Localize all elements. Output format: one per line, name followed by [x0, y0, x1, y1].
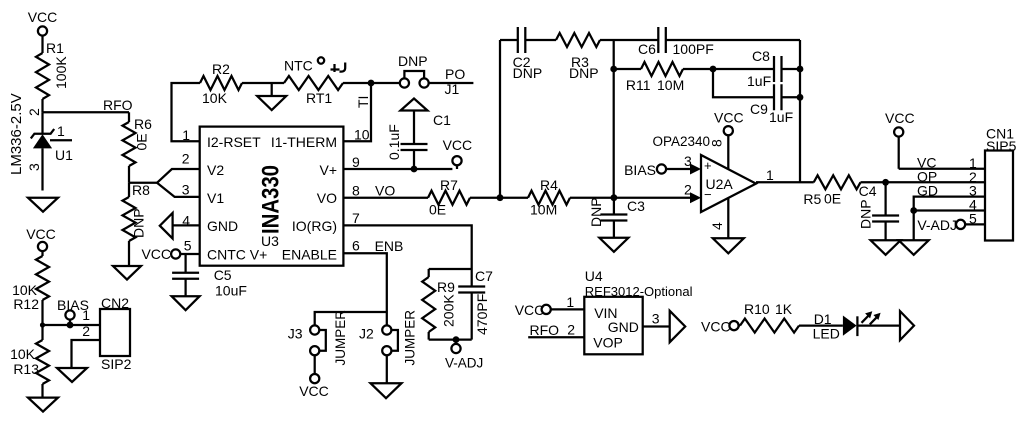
pin 1 wire U3 (I2-RSET): [172, 83, 201, 141]
svg-text:SIP5: SIP5: [986, 138, 1017, 154]
svg-text:R9: R9: [437, 279, 455, 295]
svg-text:2: 2: [567, 322, 575, 338]
junction dot (R12/R13/CN2): [40, 322, 45, 327]
capacitor C5 10uF: [184, 254, 186, 273]
resistor R10 1K: [740, 319, 799, 333]
svg-text:R6: R6: [134, 116, 152, 132]
svg-text:100K: 100K: [53, 56, 69, 89]
wire J1 to PO stub: [429, 82, 474, 84]
wire C3 node to U2A pin2: [614, 197, 691, 199]
ground (C5): [172, 296, 200, 310]
svg-text:CN2: CN2: [101, 295, 129, 311]
resistor R11 10M: [614, 68, 641, 70]
pin 3 wire U4: [643, 325, 670, 327]
thermistor RT1 NTC: [284, 76, 343, 90]
svg-text:2: 2: [26, 108, 42, 116]
svg-text:470PF: 470PF: [474, 294, 490, 335]
pin 1 wire U4: [551, 308, 585, 310]
svg-text:V+: V+: [319, 162, 337, 178]
svg-text:9: 9: [352, 154, 360, 170]
svg-text:IO(RG): IO(RG): [292, 218, 337, 234]
capacitor C6 100PF: [658, 27, 666, 53]
pin 3 arrowhead: [690, 164, 701, 175]
svg-text:VCC: VCC: [141, 246, 171, 262]
vertical wire C2R3 node: [613, 40, 615, 198]
svg-text:LM336-2.5V: LM336-2.5V: [8, 93, 25, 175]
connector CN2 SIP2: [100, 309, 130, 356]
IC U4 REF3012 body: [584, 297, 642, 355]
junction dot (C4 node): [882, 179, 889, 186]
output arrow (U4): [670, 311, 686, 342]
ground (U1): [28, 198, 58, 212]
svg-text:PO: PO: [445, 66, 465, 82]
capacitor C3 (DNP): [613, 198, 615, 215]
pin 4 wire CN1: [914, 209, 985, 211]
svg-text:R2: R2: [212, 61, 230, 77]
jumper J3: [310, 325, 319, 334]
jumper J1 (DNP): [400, 78, 409, 87]
svg-text:C9: C9: [750, 101, 768, 117]
pin 3 wire U2A: [666, 168, 691, 170]
svg-text:I2-RSET: I2-RSET: [207, 134, 261, 150]
svg-text:10K: 10K: [10, 346, 36, 362]
ground arrow (pin 4): [160, 213, 173, 239]
svg-text:VCC: VCC: [701, 319, 731, 335]
svg-text:DNP: DNP: [398, 53, 428, 69]
wire J3 to VCC: [314, 355, 316, 374]
svg-text:8: 8: [709, 139, 725, 147]
svg-text:10K: 10K: [202, 90, 228, 106]
svg-text:7: 7: [352, 210, 360, 226]
svg-text:C7: C7: [475, 268, 493, 284]
svg-text:V1: V1: [207, 190, 224, 206]
svg-text:V-ADJ: V-ADJ: [917, 217, 957, 233]
wire R7 to bus node: [470, 197, 500, 199]
svg-text:1K: 1K: [775, 301, 793, 317]
zener diode U1 LM336-2.5V: [31, 129, 54, 138]
wire TI node to J1: [371, 82, 400, 84]
connector CN1 SIP5: [985, 151, 1013, 241]
resistor R13: [36, 340, 49, 384]
wire VCC to R10: [739, 324, 740, 326]
svg-text:10M: 10M: [657, 77, 684, 93]
wire R11 to C8 node: [683, 68, 713, 70]
svg-text:R7: R7: [440, 177, 458, 193]
svg-text:VCC: VCC: [714, 110, 744, 126]
svg-text:GND: GND: [608, 319, 639, 335]
ground (R8): [113, 266, 141, 280]
resistor R6: [128, 112, 130, 122]
junction dot (GD/pin4): [910, 207, 917, 214]
junction dot (C8/C9 left): [710, 66, 717, 73]
capacitor C4 (DNP): [884, 182, 886, 215]
resistor R9 200K: [428, 269, 430, 277]
svg-text:C5: C5: [214, 267, 232, 283]
svg-text:8: 8: [352, 183, 360, 199]
wire R6 to fork: [128, 166, 130, 183]
wire D1 to arrow: [857, 324, 900, 326]
capacitor C8 1uF: [713, 68, 774, 70]
capacitor C9 1uF: [774, 84, 782, 110]
pin 4 wire U3 (GND): [173, 224, 200, 226]
svg-text:ENB: ENB: [375, 238, 404, 254]
resistor R7 0E: [428, 191, 470, 205]
svg-text:0E: 0E: [134, 133, 150, 150]
top feedback wire / C2 lead: [500, 39, 518, 41]
svg-text:ENABLE: ENABLE: [282, 247, 337, 263]
LED arrows: [862, 316, 869, 323]
svg-text:1: 1: [182, 127, 190, 143]
svg-text:V-ADJ: V-ADJ: [445, 356, 483, 371]
wire R1 to node RFO: [41, 99, 43, 112]
svg-text:1uF: 1uF: [769, 109, 793, 125]
svg-text:RT1: RT1: [306, 90, 332, 106]
wire R13 to ground: [41, 384, 43, 398]
svg-text:BIAS: BIAS: [624, 162, 656, 178]
capacitor C1 0.1uF: [413, 151, 415, 170]
svg-text:10M: 10M: [530, 202, 557, 218]
svg-text:1: 1: [766, 167, 774, 183]
pin 2 wire CN1 (OP): [886, 181, 985, 183]
svg-text:1: 1: [566, 294, 574, 310]
ground stub (R2/RT1 node): [271, 83, 273, 96]
svg-text:REF3012-Optional: REF3012-Optional: [585, 284, 693, 299]
resistor R4 10M: [500, 197, 528, 199]
wire R8 to ground: [128, 241, 130, 266]
svg-text:0E: 0E: [824, 191, 841, 207]
net V-ADJ stub: [455, 340, 457, 344]
pin 5 wire U3 (CNTC V+): [180, 253, 199, 255]
wire node to U1 cathode: [41, 112, 43, 133]
svg-text:0.1uF: 0.1uF: [386, 124, 402, 160]
svg-text:VO: VO: [317, 190, 337, 206]
svg-text:J2: J2: [359, 325, 374, 341]
svg-text:I1-THERM: I1-THERM: [271, 134, 337, 150]
svg-text:C3: C3: [627, 198, 645, 214]
svg-text:3: 3: [652, 311, 660, 327]
svg-text:VOP: VOP: [593, 335, 623, 351]
svg-text:VCC: VCC: [443, 137, 473, 153]
net RFO wire U4 pin2: [528, 336, 584, 338]
wire J2 to ground: [386, 355, 388, 383]
pin 7 wire U3 (IO(RG)): [343, 225, 471, 269]
svg-text:C1: C1: [433, 112, 451, 128]
svg-text:R8: R8: [132, 182, 150, 198]
svg-text:2: 2: [82, 323, 90, 339]
svg-text:10uF: 10uF: [215, 283, 247, 299]
resistor R5 0E: [814, 175, 861, 189]
svg-text:1: 1: [82, 307, 90, 323]
svg-text:R10: R10: [744, 301, 770, 317]
resistor R8 (DNP): [128, 183, 130, 197]
svg-text:JUMPER: JUMPER: [403, 310, 418, 366]
svg-text:VCC: VCC: [26, 226, 56, 242]
svg-text:RFO: RFO: [530, 322, 560, 338]
IC U3 INA330 body: [200, 127, 344, 266]
guard symbol above C1: [401, 99, 428, 111]
wire R4 to C3 node: [570, 197, 614, 199]
net TI vertical to pin 10: [343, 83, 371, 141]
power VCC (J3): [310, 374, 319, 383]
jumper J2: [382, 325, 391, 334]
pin 2 arrowhead: [690, 192, 701, 203]
svg-text:DNP: DNP: [131, 208, 147, 238]
LED D1: [843, 316, 857, 336]
svg-text:DNP: DNP: [858, 199, 874, 229]
wire R10 to D1: [799, 324, 843, 326]
svg-text:U1: U1: [55, 147, 73, 163]
svg-text:VCC: VCC: [515, 302, 545, 318]
svg-text:R4: R4: [540, 177, 558, 193]
svg-text:4: 4: [709, 222, 725, 230]
svg-text:INA330: INA330: [258, 165, 285, 234]
svg-text:DNP: DNP: [588, 197, 604, 227]
network R9/C7 top wire: [429, 268, 472, 270]
ground (C4): [871, 240, 901, 255]
svg-text:U2A: U2A: [706, 176, 734, 192]
svg-text:1: 1: [57, 123, 65, 139]
svg-text:DNP: DNP: [513, 65, 543, 81]
svg-text:1uF: 1uF: [747, 73, 771, 89]
ground (CN1 GD): [899, 240, 929, 255]
pin 8 wire U3 (VO): [343, 197, 428, 199]
pin 6 wire U3 (ENABLE): [343, 253, 386, 325]
resistor R12: [36, 256, 49, 300]
op-amp U2A body: [701, 155, 756, 212]
svg-text:DNP: DNP: [569, 65, 599, 81]
svg-text:C6: C6: [638, 41, 656, 57]
pin 3 wire CN1 (GD): [914, 197, 985, 241]
svg-text:+: +: [704, 158, 712, 173]
resistor R3 (DNP): [556, 33, 600, 47]
wire R5 to C4 node: [861, 181, 886, 183]
wire R2 to RT1: [242, 82, 284, 84]
svg-text:10: 10: [354, 127, 370, 143]
output arrow (LED): [900, 311, 914, 340]
svg-text:VCC: VCC: [299, 383, 329, 399]
svg-text:GD: GD: [917, 183, 938, 199]
svg-text:OPA2340: OPA2340: [653, 134, 711, 149]
svg-text:6: 6: [352, 238, 360, 254]
svg-text:C8: C8: [752, 48, 770, 64]
svg-text:3: 3: [182, 182, 190, 198]
svg-text:VCC: VCC: [28, 9, 58, 25]
svg-text:2: 2: [182, 151, 190, 167]
svg-text:U3: U3: [261, 233, 279, 249]
junction dot (TI node): [368, 80, 375, 87]
ground (CN2 pin2): [57, 368, 87, 382]
svg-text:R1: R1: [46, 40, 64, 56]
svg-text:CNTC V+: CNTC V+: [207, 247, 267, 263]
svg-text:TI: TI: [355, 96, 371, 108]
svg-text:4: 4: [182, 213, 190, 229]
svg-text:R11: R11: [626, 77, 651, 93]
ground (R2/RT1): [257, 96, 286, 110]
svg-text:U4: U4: [585, 268, 603, 284]
svg-text:R12: R12: [13, 296, 39, 312]
bus wire left (PO/VO column): [499, 40, 501, 198]
capacitor C7 470PF: [471, 269, 473, 287]
svg-text:5: 5: [969, 210, 977, 226]
ground (R13): [28, 398, 58, 412]
svg-text:C4: C4: [859, 183, 877, 199]
svg-text:0E: 0E: [429, 202, 446, 218]
svg-text:R13: R13: [13, 361, 39, 377]
junction dot (bus/VO): [497, 194, 504, 201]
ground (C3): [599, 238, 628, 252]
svg-text:NTC: NTC: [284, 58, 313, 74]
node RFO / wire to R6: [43, 111, 130, 113]
svg-text:LED: LED: [813, 326, 840, 342]
wire R3 to C6: [600, 39, 658, 41]
pin 1 wire CN1 (VC): [899, 168, 985, 170]
pin 4 wire U2A: [727, 199, 729, 239]
fork wire to V2/V1: [129, 182, 157, 184]
svg-text:VCC: VCC: [885, 110, 915, 126]
svg-text:VO: VO: [375, 183, 395, 199]
resistor R2 10K: [200, 76, 242, 90]
ground (U2A pin4): [713, 238, 744, 253]
junction dot (C8 right): [797, 66, 804, 73]
wire branch to J3: [315, 312, 387, 325]
svg-text:3: 3: [26, 163, 42, 171]
capacitor C2 (DNP): [518, 27, 526, 53]
bus wire right (output column): [799, 40, 801, 182]
junction dot (C3 node): [611, 194, 618, 201]
junction dot (C9 right): [797, 94, 804, 101]
wire RT1 to node TI: [343, 82, 371, 84]
junction dot (R11 tee): [610, 66, 617, 73]
node BIAS wire to CN2 pin1: [43, 324, 101, 326]
svg-text:100PF: 100PF: [673, 41, 714, 57]
svg-text:SIP2: SIP2: [101, 356, 132, 372]
svg-text:R5: R5: [803, 191, 821, 207]
junction dot (C1 tap): [411, 166, 418, 173]
ground (J2): [371, 383, 402, 398]
svg-text:V2: V2: [207, 162, 224, 178]
svg-text:200K: 200K: [441, 294, 457, 327]
svg-text:JUMPER: JUMPER: [333, 310, 348, 366]
junction dot (V-ADJ tap): [453, 336, 460, 343]
resistor R1: [36, 53, 49, 99]
svg-text:GND: GND: [207, 218, 238, 234]
wire C8 node to C9: [713, 69, 774, 97]
svg-text:J3: J3: [288, 325, 303, 341]
wire R12 to BIAS node: [41, 300, 43, 325]
svg-text:RFO: RFO: [103, 97, 133, 113]
pin 9 wire U3 (V+): [343, 168, 452, 170]
network R9/C7 bottom wire: [429, 338, 472, 340]
pin 2 wire CN2 to ground: [72, 340, 101, 368]
pin 1 output wire U2A: [756, 181, 814, 183]
svg-text:5: 5: [184, 237, 192, 253]
